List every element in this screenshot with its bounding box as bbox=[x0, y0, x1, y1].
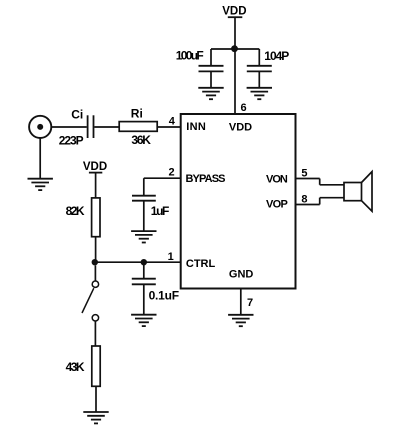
svg-text:223P: 223P bbox=[59, 133, 84, 147]
svg-text:4: 4 bbox=[169, 116, 176, 128]
svg-text:1uF: 1uF bbox=[151, 204, 170, 218]
svg-text:2: 2 bbox=[168, 166, 174, 178]
svg-text:6: 6 bbox=[241, 102, 247, 114]
svg-text:BYPASS: BYPASS bbox=[186, 173, 226, 185]
svg-text:VDD: VDD bbox=[222, 6, 246, 18]
svg-text:0.1uF: 0.1uF bbox=[149, 289, 180, 303]
svg-text:VON: VON bbox=[266, 174, 288, 186]
svg-text:36K: 36K bbox=[131, 133, 151, 147]
svg-text:8: 8 bbox=[301, 193, 307, 205]
svg-text:GND: GND bbox=[229, 269, 254, 281]
svg-text:43K: 43K bbox=[66, 360, 85, 374]
svg-text:7: 7 bbox=[247, 297, 253, 309]
svg-text:VDD: VDD bbox=[83, 161, 107, 173]
svg-text:INN: INN bbox=[186, 121, 206, 133]
svg-text:104P: 104P bbox=[264, 49, 289, 63]
svg-text:VDD: VDD bbox=[229, 121, 252, 133]
svg-text:CTRL: CTRL bbox=[186, 258, 216, 270]
svg-text:1: 1 bbox=[168, 251, 174, 263]
svg-text:5: 5 bbox=[301, 167, 307, 179]
svg-text:100uF: 100uF bbox=[176, 49, 204, 63]
svg-text:Ri: Ri bbox=[131, 107, 143, 121]
svg-text:82K: 82K bbox=[66, 204, 85, 218]
svg-text:VOP: VOP bbox=[266, 199, 288, 211]
svg-text:Ci: Ci bbox=[71, 107, 83, 121]
